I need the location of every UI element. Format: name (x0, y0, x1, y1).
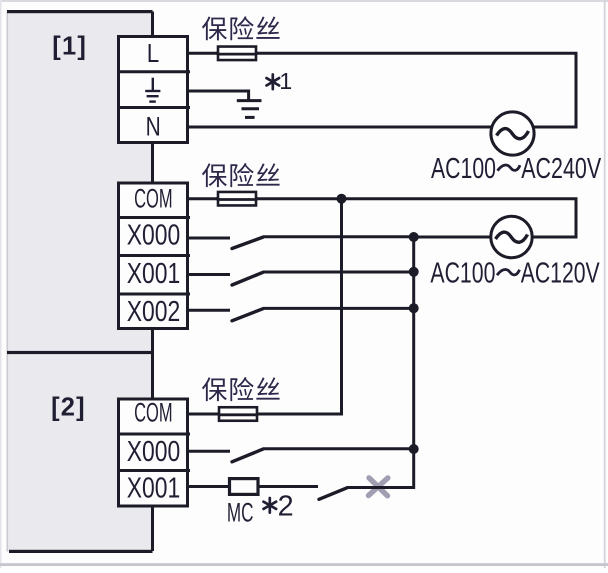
contact MC (magnetic contactor coil) (230, 479, 259, 495)
junction: X000 on bus B (409, 232, 419, 242)
wire: fuse F2 right, down right rail to AC source 2 (256, 199, 576, 237)
PLC unit outline (sections [1] and [2]) (7, 10, 153, 553)
label AC100~AC240V (431, 152, 601, 184)
note *1 asterisk (267, 75, 280, 90)
switch on X001 input (189, 272, 414, 285)
svg-text:AC240V: AC240V (521, 152, 601, 184)
svg-text:COM: COM (134, 184, 173, 214)
fuse F1 (216, 47, 258, 61)
tilde in AC240V label (498, 165, 521, 171)
switch blade on MC line (319, 488, 347, 500)
label "保险丝" (fuse label 2) (202, 163, 280, 187)
wire: bus B to AC source 2 (414, 236, 491, 239)
svg-text:X000: X000 (127, 436, 181, 468)
switch on X002 input (189, 308, 414, 320)
svg-text:2: 2 (278, 491, 294, 523)
terminal earth symbol (145, 78, 160, 102)
label "保险丝" (fuse label 1) (202, 16, 280, 40)
terminal block: COM / X000 / X001 (section 2) (117, 399, 190, 506)
svg-text:AC120V: AC120V (521, 257, 600, 289)
cross (no-connection) mark (369, 478, 388, 496)
wire: X001(2) terminal to MC contact (189, 485, 230, 488)
wire: MC to switch (258, 485, 318, 488)
svg-text:L: L (147, 40, 160, 68)
wire: vertical spine linking terminal blocks (151, 12, 154, 552)
AC source G1 (AC100-AC240V) (491, 112, 534, 155)
junction: X001 on bus B (409, 267, 419, 277)
label "保险丝" (fuse label 3) (202, 377, 280, 401)
svg-text:X002: X002 (127, 296, 181, 328)
svg-text:AC100: AC100 (430, 257, 495, 289)
svg-text:N: N (146, 111, 161, 141)
svg-text:X001: X001 (127, 258, 181, 290)
switch on X000 input (section 2) (189, 449, 414, 462)
wire: switch through cross mark to bus B (347, 486, 414, 489)
wire: common input bus B down right side (390, 237, 414, 488)
svg-text:MC: MC (227, 497, 254, 527)
junction: X000(2) on bus B (409, 444, 419, 454)
terminal block: L / earth / N (117, 37, 190, 143)
svg-text:1: 1 (279, 68, 292, 94)
wire: earth terminal to protective ground (189, 91, 249, 100)
label AC100~AC120V (430, 257, 599, 289)
AC source G2 (AC100-AC120V) (491, 216, 532, 257)
svg-text:[1]: [1] (52, 32, 87, 60)
svg-text:COM: COM (134, 397, 173, 427)
wire: N terminal to AC source 1 (189, 126, 492, 129)
junction: bus A on COM wire (337, 194, 347, 204)
svg-text:[2]: [2] (51, 394, 86, 422)
wire: COM(2) terminal to fuse F3 (189, 413, 219, 416)
wire: L terminal to fuse F1 (189, 52, 218, 55)
svg-text:AC100: AC100 (431, 152, 496, 184)
fuse F2 (216, 192, 258, 206)
ground symbol (protective earth) (237, 101, 262, 118)
tilde in AC120V label (497, 269, 520, 275)
fuse F3 (217, 407, 259, 421)
wire: fuse F1 right, down right rail to AC source 1 (256, 53, 576, 127)
wire: COM terminal to fuse F2 (189, 197, 218, 200)
note *2 asterisk (264, 498, 277, 513)
svg-text:X000: X000 (127, 219, 181, 251)
wire: bus A from COM(1) down to COM(2) fuse (257, 199, 342, 414)
terminal block: COM / X000 / X001 / X002 (117, 183, 190, 329)
svg-text:X001: X001 (127, 473, 181, 505)
junction: X002 on bus B (409, 303, 419, 313)
switch on X000 input (189, 237, 414, 249)
